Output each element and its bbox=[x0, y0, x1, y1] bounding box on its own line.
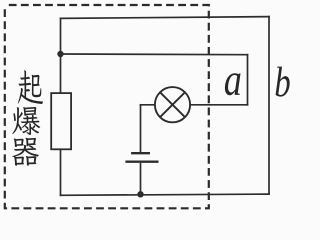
wire: left riser, top wire to resistor (through node) bbox=[60, 18, 62, 93]
wire: lamp row horizontal bbox=[141, 104, 248, 106]
label char 爆 (detonator text 2) bbox=[12, 107, 40, 135]
junction dot (bottom node) bbox=[137, 191, 143, 197]
wire: left riser, resistor to bottom wire bbox=[60, 149, 62, 195]
junction dot (top node) bbox=[57, 51, 63, 57]
battery: short plate (top) bbox=[131, 152, 150, 154]
dashed boundary box (detonator enclosure) bbox=[5, 5, 209, 208]
wire: battery to bottom wire bbox=[140, 163, 142, 195]
wire: top horizontal (left riser to b-branch) bbox=[61, 17, 270, 19]
wire: lamp row to battery vertical bbox=[140, 105, 142, 152]
wire: right vertical (b branch) bbox=[268, 17, 270, 195]
label char 器 (detonator text 3) bbox=[12, 138, 39, 166]
battery: long plate (bottom) bbox=[125, 160, 158, 162]
wire: a-branch horizontal from top node bbox=[61, 53, 248, 56]
wire: a-box right vertical bbox=[247, 55, 249, 105]
label char 起 (detonator text 1) bbox=[18, 70, 43, 104]
resistor R (detonator element box) bbox=[51, 93, 71, 149]
node a label bbox=[225, 73, 241, 95]
node b label bbox=[276, 67, 290, 97]
lamp L (circle with X) bbox=[155, 87, 190, 122]
wire: bottom horizontal bbox=[61, 194, 270, 195]
